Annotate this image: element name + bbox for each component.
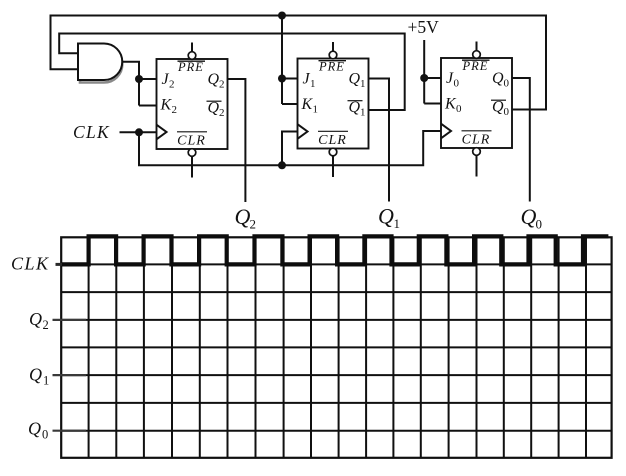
svg-text:Q: Q	[349, 71, 361, 88]
wire Q2 row lead tick	[53, 319, 87, 321]
U2 (Q2 stage) CLR stub	[191, 156, 193, 177]
wire Q1 row lead tick	[53, 374, 87, 376]
svg-text:0: 0	[536, 217, 543, 232]
node clock bus junction	[278, 161, 286, 169]
node junction J2/K2 tie	[135, 75, 143, 83]
wire clock bus	[139, 131, 441, 165]
wire J1 input	[282, 78, 298, 80]
svg-text:Q: Q	[492, 99, 504, 116]
U4 (Q0 stage) CLR stub	[476, 155, 478, 176]
svg-text:CLR: CLR	[318, 133, 347, 148]
U3 (Q1 stage) CLR bubble	[329, 148, 337, 156]
U3 (Q1 stage) CLR stub	[332, 156, 334, 177]
svg-text:2: 2	[219, 79, 225, 91]
svg-text:CLR: CLR	[177, 134, 206, 149]
svg-text:CLR: CLR	[462, 133, 491, 148]
svg-text:PRE: PRE	[177, 60, 204, 74]
U2 (Q2 stage) CLR bubble	[188, 149, 196, 157]
U4 (Q0 stage) PRE bubble	[473, 51, 481, 59]
flip-flop U4 (Q0 stage) box	[441, 58, 512, 148]
node CLK junction	[135, 128, 143, 136]
svg-text:Q: Q	[29, 365, 42, 385]
U2 (Q2 stage) PRE stub	[191, 43, 193, 52]
wire Q0bar feedback net (top wire to AND lower input)	[51, 16, 547, 110]
svg-text:Q: Q	[521, 204, 537, 229]
wire Q1 output	[369, 79, 390, 202]
svg-text:2: 2	[250, 217, 257, 232]
svg-text:PRE: PRE	[318, 60, 345, 74]
U3 (Q1 stage) PRE stub	[332, 42, 334, 51]
svg-text:PRE: PRE	[462, 59, 489, 73]
node +5V J0/K0 tie	[420, 74, 428, 82]
U2 (Q2 stage) clock triangle	[157, 125, 167, 140]
wire Q0 row lead tick	[53, 430, 87, 432]
wire K1 input	[282, 103, 298, 105]
svg-text:Q: Q	[29, 309, 42, 329]
wire +5V rail down	[423, 40, 425, 104]
svg-text:1: 1	[394, 216, 401, 231]
CLK waveform	[61, 236, 608, 264]
svg-text:1: 1	[313, 104, 319, 116]
wire Q1bar feedback net (second wire to AND upper input)	[59, 34, 405, 111]
svg-text:Q: Q	[349, 99, 361, 116]
svg-text:+5V: +5V	[408, 17, 440, 37]
svg-text:1: 1	[310, 78, 316, 90]
svg-text:0: 0	[504, 106, 510, 118]
svg-text:0: 0	[456, 103, 462, 115]
timing grid border	[61, 237, 611, 457]
svg-text:Q: Q	[378, 204, 394, 229]
svg-text:Q: Q	[208, 100, 220, 117]
timing grid horizontal lines	[61, 264, 611, 430]
svg-text:Q: Q	[28, 419, 41, 439]
svg-text:2: 2	[172, 104, 178, 116]
svg-text:CLK: CLK	[11, 254, 50, 274]
svg-text:Q: Q	[208, 71, 220, 88]
U4 (Q0 stage) clock triangle	[441, 124, 451, 139]
U3 (Q1 stage) PRE bubble	[329, 51, 337, 59]
AND gate U1 shadow	[80, 46, 122, 83]
wire AND output to J2/K2 tie	[122, 62, 139, 106]
wire Q2 output	[228, 79, 246, 202]
svg-text:CLK: CLK	[73, 122, 110, 142]
svg-text:0: 0	[454, 78, 460, 90]
wire J2 input	[139, 78, 157, 80]
svg-text:2: 2	[169, 79, 175, 91]
flip-flop U3 (Q1 stage) box	[298, 59, 369, 149]
wire J0 input	[424, 77, 441, 79]
wire CLK row lead tick	[56, 263, 63, 266]
svg-text:2: 2	[219, 107, 225, 119]
svg-text:Q: Q	[235, 204, 251, 229]
U2 (Q2 stage) PRE bubble	[188, 52, 196, 60]
node junction on top wire	[278, 12, 286, 20]
wire K0 input	[424, 103, 441, 105]
U4 (Q0 stage) PRE stub	[476, 42, 478, 51]
wire top-wire branch down to J1/K1	[281, 16, 283, 105]
svg-text:0: 0	[42, 428, 48, 442]
wire K2 input	[139, 105, 157, 107]
svg-text:1: 1	[43, 374, 49, 388]
svg-text:2: 2	[43, 318, 49, 332]
wire CLK input lead	[120, 131, 157, 133]
AND gate U1	[78, 44, 122, 81]
svg-text:Q: Q	[492, 70, 504, 87]
wire Q0 output	[512, 78, 530, 202]
wire clock branch to FF2	[282, 132, 298, 166]
timing grid vertical lines	[89, 237, 586, 457]
svg-text:0: 0	[504, 78, 510, 90]
U4 (Q0 stage) CLR bubble	[473, 148, 481, 156]
svg-text:1: 1	[360, 78, 366, 90]
svg-text:1: 1	[360, 107, 366, 119]
flip-flop U2 (Q2 stage) box	[157, 59, 228, 149]
U3 (Q1 stage) clock triangle	[298, 124, 308, 139]
node junction J1/K1 tie	[278, 75, 286, 83]
